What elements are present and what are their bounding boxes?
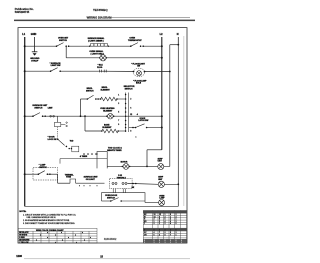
selector pin numbers: [118, 94, 131, 132]
open terminals: [66, 122, 67, 123]
model table section2 header fill: [143, 228, 186, 231]
header rule: [14, 20, 195, 22]
wire L1 to oven set switch: [25, 45, 57, 47]
wire lamp switch out: [47, 173, 57, 175]
motor oven heating element: [108, 113, 114, 119]
svg-text:x: x: [62, 239, 63, 241]
wire unit2 to N: [164, 183, 178, 185]
node L2 junction: [161, 57, 163, 59]
wire motor to surface unit1: [130, 165, 158, 167]
wire selector to latch switch: [129, 127, 136, 129]
wire light switch to plug: [60, 70, 99, 72]
svg-text:x: x: [47, 237, 48, 239]
terminal dots row: [83, 153, 97, 155]
svg-text:3. DISCONNECT POWER AT SOURCE: 3. DISCONNECT POWER AT SOURCE BEFORE SER…: [23, 222, 75, 225]
svg-text:SURFACE UNIT: SURFACE UNIT: [32, 104, 48, 107]
resistor bake element: [102, 129, 118, 133]
svg-text:x: x: [82, 232, 83, 234]
svg-text:3: 3: [181, 242, 182, 244]
svg-text:MOTOR: MOTOR: [121, 162, 128, 164]
svg-text:1296: 1296: [16, 255, 22, 258]
svg-text:3: 3: [176, 242, 177, 244]
node N-surface unit joint: [177, 183, 179, 185]
fuse element: [54, 122, 60, 126]
svg-text:1: 1: [176, 234, 177, 236]
wire bake element to selector: [118, 130, 125, 132]
svg-text:THERMOSTAT: THERMOSTAT: [128, 39, 142, 42]
wire L1 to surface switch: [25, 115, 33, 117]
svg-text:x: x: [40, 235, 41, 237]
svg-text:SWITCH: SWITCH: [86, 90, 94, 92]
svg-text:SW: SW: [137, 66, 140, 68]
stub wire down: [57, 116, 59, 122]
terminal block pins: [112, 182, 127, 184]
wire branch up: [80, 99, 82, 116]
svg-text:3: 3: [118, 103, 119, 105]
L2 bus: [161, 37, 163, 150]
model table dark bottom rows: [143, 239, 186, 243]
node L1 junction: [24, 45, 26, 47]
header underline: [110, 17, 190, 19]
svg-text:FUSE: FUSE: [66, 177, 72, 179]
switch door latch: [135, 124, 148, 129]
svg-text:x: x: [47, 232, 48, 234]
svg-text:LIGHT SW: LIGHT SW: [51, 65, 61, 67]
heater element surface signal: [91, 44, 108, 47]
wire door switch right: [121, 200, 145, 202]
wire branch down: [84, 116, 86, 131]
svg-text:7: 7: [170, 234, 171, 236]
svg-text:9: 9: [118, 124, 119, 126]
wire to clock housing: [96, 153, 98, 155]
wire door box corner: [144, 201, 146, 203]
svg-text:GND: GND: [31, 33, 37, 36]
wire switch to branch node: [43, 115, 81, 117]
svg-text:x: x: [55, 235, 56, 237]
switch oven thermostat: [130, 43, 141, 47]
surface unit 2: [158, 181, 164, 187]
wire unit1 to N corner: [164, 166, 170, 168]
wire oven light to rail: [161, 205, 163, 208]
model chart table: [143, 210, 186, 243]
N branch wire x170: [169, 45, 171, 167]
svg-text:2: 2: [165, 223, 166, 225]
clock shelf drop: [59, 159, 61, 164]
svg-text:1: 1: [118, 94, 119, 96]
svg-text:6: 6: [154, 234, 155, 236]
svg-text:ELEMENT: ELEMENT: [103, 110, 113, 112]
node L2 drop joint: [146, 166, 148, 168]
connector ticks: [99, 70, 106, 73]
node L2 junction: [161, 45, 163, 47]
svg-text:4: 4: [137, 113, 138, 116]
dashed box lamp switch: [33, 168, 58, 180]
svg-text:x: x: [55, 242, 56, 244]
wire L1 to light switch: [25, 70, 51, 72]
svg-text:3: 3: [159, 242, 160, 244]
svg-text:7: 7: [118, 120, 119, 122]
svg-text:( LIGHT AMBER ): ( LIGHT AMBER ): [88, 40, 104, 43]
svg-text:5: 5: [118, 112, 119, 114]
switch surface unit: [32, 113, 43, 117]
switch oven light: [50, 68, 61, 72]
wire to bake element: [85, 130, 102, 132]
clock housing: [97, 152, 107, 169]
wire signal light to L2: [106, 57, 162, 59]
node oven lamp return: [169, 71, 171, 73]
thermal bump: [70, 179, 76, 183]
table row labels: [19, 231, 30, 244]
wire terminal block to surface unit2: [128, 182, 159, 185]
wire latch to L2: [147, 127, 162, 129]
wire bump to terminal block: [76, 182, 105, 184]
wire thermostat to L2: [143, 45, 162, 47]
selector pins: [125, 94, 127, 132]
svg-text:4: 4: [170, 222, 171, 225]
wire floodlight to N branch: [145, 71, 170, 73]
lamp oven signal light: [100, 55, 106, 61]
svg-text:Publication No.: Publication No.: [15, 7, 34, 11]
N lead: [177, 37, 179, 45]
lamp fixture oven floodlight: [133, 68, 146, 76]
svg-text:1. CIRCUIT SHOWN WITH L1 CONN: 1. CIRCUIT SHOWN WITH L1 CONNECTED TO P-…: [23, 214, 76, 216]
model table bottom white text: [144, 240, 182, 244]
svg-text:Y YELLOW: Y YELLOW: [19, 242, 29, 244]
svg-text:3: 3: [170, 242, 171, 244]
svg-text:3: 3: [165, 242, 166, 244]
svg-text:x: x: [75, 235, 76, 237]
wire corner down: [57, 174, 59, 183]
wire to oven signal light: [66, 57, 100, 59]
svg-text:1: 1: [159, 223, 160, 225]
node branch to bake: [84, 115, 86, 117]
wire clock left: [107, 165, 122, 167]
svg-text:ON LIGHT: ON LIGHT: [86, 179, 96, 181]
N horizontal wire: [170, 44, 179, 46]
svg-text:x: x: [68, 237, 69, 239]
svg-text:SWITCH: SWITCH: [125, 88, 133, 90]
wire color code table: [18, 228, 97, 243]
L2 corner wire: [147, 149, 162, 151]
node L2 junction: [161, 115, 163, 117]
wire heating element to L2: [114, 115, 162, 117]
wire door box to oven lamp: [145, 202, 159, 204]
node L1 junction: [24, 70, 26, 72]
svg-text:TEF350BQ: TEF350BQ: [93, 8, 108, 12]
model table header fill: [143, 211, 186, 214]
switch timer: [57, 139, 67, 148]
svg-text:N: N: [177, 33, 179, 36]
bottom rail wire: [25, 205, 179, 207]
L2 drop to motor row: [146, 150, 148, 167]
svg-text:2. 30-50 AMPERE MAXIMUM BRANC: 2. 30-50 AMPERE MAXIMUM BRANCH CIRCUIT F…: [23, 219, 70, 222]
node N junction: [177, 44, 179, 46]
N bus down to rail: [177, 45, 179, 207]
svg-text:3: 3: [154, 223, 155, 225]
switch lamp: [38, 171, 49, 175]
svg-text:STRAP: STRAP: [31, 60, 39, 63]
inner trim line: [183, 36, 185, 206]
wire to broil switch: [81, 98, 88, 100]
model table cells: [144, 214, 177, 236]
surface unit 1: [158, 164, 164, 170]
svg-text:LATCH SW: LATCH SW: [138, 119, 148, 122]
clock shelf line: [60, 158, 107, 160]
resistor broil element: [101, 97, 117, 101]
svg-text:& TIMER: & TIMER: [80, 156, 88, 158]
pin legs: [113, 189, 125, 193]
wire L1 to lamp switch: [25, 173, 39, 175]
node branch to broil: [80, 115, 82, 117]
switch oven set: [56, 43, 67, 47]
svg-text:LOCK SW: LOCK SW: [48, 139, 57, 141]
svg-text:3: 3: [154, 242, 155, 244]
svg-text:*: *: [135, 135, 136, 139]
wire switch to thermostat: [69, 45, 131, 47]
svg-text:12: 12: [130, 114, 132, 116]
svg-text:8: 8: [165, 234, 166, 236]
svg-text:LAMP: LAMP: [159, 197, 165, 200]
svg-text:NOTE:: NOTE:: [19, 211, 26, 213]
node L1 junction: [24, 115, 26, 117]
svg-text:6: 6: [130, 108, 131, 110]
terminal circles: [50, 115, 52, 117]
svg-text:x: x: [84, 239, 85, 241]
motor clock: [123, 164, 129, 170]
stub wire right: [61, 123, 66, 125]
switch oven door: [110, 198, 122, 202]
svg-text:8: 8: [130, 131, 131, 133]
svg-text:SWITCH: SWITCH: [34, 107, 42, 109]
svg-text:x: x: [61, 232, 62, 234]
svg-text:ELEMENT: ELEMENT: [101, 89, 111, 91]
oven door switch box: [102, 193, 146, 201]
svg-text:USE. CANADIAN MODELS USE N.: USE. CANADIAN MODELS USE N.: [27, 216, 57, 219]
svg-text:WIRING DIAGRAM: WIRING DIAGRAM: [87, 15, 113, 19]
L1 bus: [24, 37, 26, 206]
svg-text:BULB: BULB: [136, 83, 142, 85]
svg-text:3: 3: [144, 242, 145, 244]
outer border box: [18, 28, 187, 243]
selector bracket left: [125, 93, 127, 133]
svg-text:ELEMENT: ELEMENT: [102, 127, 112, 129]
wire to thermal bump: [58, 182, 70, 184]
svg-text:316443002: 316443002: [104, 238, 117, 241]
switch broil: [87, 95, 97, 100]
svg-text:MINUTE TIMER: MINUTE TIMER: [107, 150, 122, 152]
svg-text:5: 5: [176, 223, 177, 225]
node L1 junction: [24, 173, 26, 175]
wire tap down from set switch: [65, 46, 67, 58]
wire to door switch blade: [102, 200, 111, 202]
ground symbol: [32, 52, 38, 56]
svg-text:x: x: [90, 237, 91, 239]
terminal block dashed box: [110, 178, 132, 188]
wire branch to heating element: [81, 115, 107, 117]
lamp oven light: [159, 200, 165, 206]
svg-text:5995298745: 5995298745: [15, 10, 30, 14]
gauge dots: [79, 185, 98, 186]
footer rule: [24, 258, 190, 260]
svg-text:2: 2: [130, 99, 131, 101]
small box: [72, 146, 79, 152]
table cell marks: [36, 232, 91, 244]
svg-text:TERM BLK: TERM BLK: [117, 178, 127, 180]
wire plug to floodlight: [99, 70, 134, 72]
lamp floodlamp bulb: [137, 71, 142, 76]
svg-text:PLUG: PLUG: [97, 67, 103, 69]
wire broil element to selector: [117, 98, 126, 100]
svg-text:4: 4: [159, 233, 160, 236]
svg-text:x: x: [76, 242, 77, 244]
dashed wire to timer switch: [57, 127, 59, 139]
svg-text:x: x: [36, 239, 37, 241]
node L2 junction: [161, 127, 163, 129]
selector bracket right: [128, 93, 130, 133]
svg-text:SWITCH: SWITCH: [59, 40, 67, 42]
GND lead wire: [34, 37, 36, 52]
